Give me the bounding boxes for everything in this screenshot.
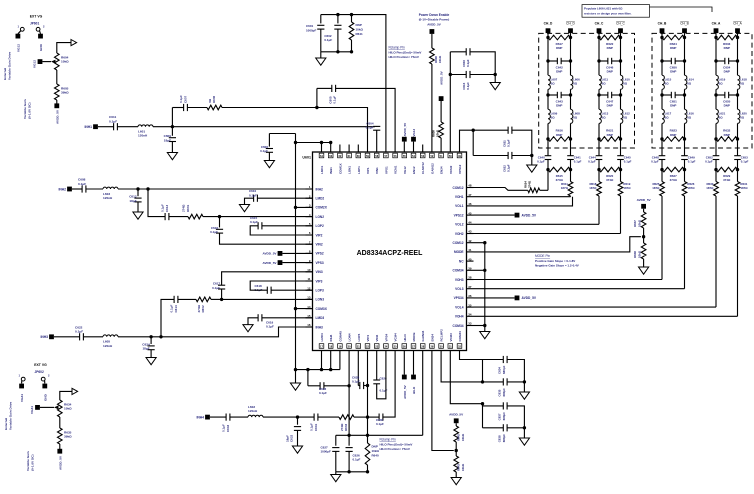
- node clamp bottom mid2: [366, 470, 369, 473]
- wire pair B bottom lead: [483, 427, 504, 429]
- pad HILO pin26: [411, 358, 416, 394]
- node C623-pin20 junction: [347, 384, 350, 387]
- wire pair1 to ground: [494, 75, 496, 83]
- wire ch A to inductors 2: [716, 95, 738, 109]
- pin 23 stub (bottom, VIN4): [374, 334, 379, 358]
- svg-text:CLMP12: CLMP12: [421, 162, 425, 174]
- svg-text:0.1μF: 0.1μF: [688, 160, 696, 164]
- svg-text:Rclamp Pin: Rclamp Pin: [389, 46, 406, 50]
- svg-text:LMD3: LMD3: [316, 316, 325, 320]
- svg-text:48: 48: [468, 184, 472, 188]
- svg-text:10kΩ: 10kΩ: [356, 28, 364, 32]
- wire LON3 node to pin 13: [222, 298, 313, 300]
- svg-text:680pF: 680pF: [502, 365, 506, 374]
- pin 43 stub (right, VOH2): [455, 230, 474, 236]
- pin 39 stub (right, COM34): [453, 267, 474, 273]
- wire ch C upper segment: [599, 38, 621, 62]
- resistor R616 DNP (ch D): [546, 129, 572, 142]
- node chain2 junction 1: [136, 187, 139, 190]
- svg-text:40: 40: [468, 257, 472, 261]
- wire pair2 top right: [512, 130, 532, 155]
- wire node A to pin 59 column: [317, 108, 368, 145]
- wire pot top to arrow 2: [60, 391, 72, 400]
- svg-text:JP602: JP602: [35, 370, 44, 374]
- svg-text:10kΩ: 10kΩ: [372, 449, 380, 453]
- wire R641 bottom: [351, 40, 353, 52]
- wire C606 tap to COM bus: [269, 133, 295, 135]
- wire C622 to L605: [83, 336, 103, 338]
- svg-text:10kΩ: 10kΩ: [436, 129, 440, 137]
- pin 9 stub (left, VPS3): [306, 259, 324, 265]
- svg-text:0.1μF: 0.1μF: [212, 286, 220, 290]
- wire ch C mid segment: [599, 89, 621, 95]
- node pin42 COM12 junction: [474, 241, 487, 244]
- resistor R603 274 ohm: [339, 415, 354, 431]
- ground right COM bus: [480, 332, 490, 339]
- resistor R627 374 ohm (ch B): [660, 167, 686, 182]
- capacitor C602 0.1uF: [324, 25, 341, 42]
- capacitor C640 0.1uF (ch D left out): [537, 155, 551, 169]
- node pin39 COM34 junction: [474, 269, 487, 272]
- wire pad to R637: [643, 209, 645, 212]
- svg-text:0Ω: 0Ω: [740, 116, 745, 120]
- pad AVDD_5V (R605 bottom): [54, 103, 59, 124]
- wire C601 drop: [320, 15, 322, 24]
- wire ch D mid segment: [548, 89, 571, 95]
- wire chain2 to pin 1 INH2: [148, 188, 313, 190]
- pin 11 stub (left, VIP3): [306, 277, 323, 283]
- svg-text:DNP: DNP: [556, 70, 562, 74]
- pin 46 stub (right, VOL1): [455, 202, 473, 208]
- wire R637 to node: [643, 228, 645, 237]
- wire COM bus vertical: [295, 134, 297, 370]
- wire ch A exit box: [716, 139, 738, 156]
- wire LON4 node to clamp net: [367, 417, 369, 435]
- capacitor C613 0.1uF series: [161, 204, 169, 220]
- wire INH3 pad to C622: [54, 336, 80, 338]
- svg-text:CH_A: CH_A: [733, 22, 742, 26]
- wire C627 to bottom rail: [335, 451, 337, 471]
- capacitor C605 0.1uF: [328, 85, 336, 104]
- pin 34 stub (right, VOH4): [455, 313, 474, 319]
- svg-text:Positive Gain Slope = 0-1.8V: Positive Gain Slope = 0-1.8V: [535, 259, 575, 263]
- svg-text:LMD4: LMD4: [320, 333, 324, 341]
- wire L602 to junction: [263, 416, 298, 418]
- svg-text:VG34: VG34: [30, 406, 34, 414]
- pin 3 stub (left, COM2X): [306, 204, 328, 210]
- wire ch D upper segment: [548, 38, 571, 62]
- pad VG12 (JP601 pin1): [16, 34, 21, 52]
- inductor L608 0 ohm: [571, 109, 581, 123]
- wire chain3 to pin 16 INH3: [161, 327, 313, 337]
- wire R601 to LON2 node: [203, 216, 220, 218]
- capacitor C609 18pF shunt: [164, 127, 176, 143]
- inductor L610 0 ohm: [621, 75, 631, 89]
- wire INH2 pad to C608: [72, 188, 82, 190]
- svg-text:MODE: MODE: [454, 250, 464, 254]
- inductor L602 120nH: [248, 405, 263, 417]
- ground C606: [264, 161, 274, 168]
- svg-text:LMD1: LMD1: [320, 166, 324, 174]
- inductor L601 120nH: [138, 125, 153, 138]
- svg-text:JP601: JP601: [30, 21, 39, 25]
- svg-text:DNP: DNP: [607, 46, 613, 50]
- pin 33 stub (right, COM34): [453, 322, 474, 328]
- svg-text:LON3: LON3: [316, 298, 325, 302]
- capacitor C603 0.1uF: [462, 48, 470, 67]
- resistor R643 10k: [454, 451, 465, 473]
- svg-text:EXT VG: EXT VG: [34, 363, 47, 367]
- svg-text:0Ω: 0Ω: [602, 82, 607, 86]
- svg-text:NC: NC: [459, 259, 464, 263]
- svg-text:VPS1: VPS1: [384, 166, 388, 174]
- wire pair A bottom lead: [483, 381, 504, 383]
- wire bus to ground: [295, 370, 297, 383]
- svg-text:35: 35: [468, 303, 472, 307]
- wire ch C lower segment: [599, 123, 621, 139]
- wire VOH1 to filter D right: [474, 196, 571, 198]
- svg-text:VIN3: VIN3: [316, 270, 323, 274]
- svg-text:HILO Position= 75mV: HILO Position= 75mV: [380, 447, 410, 451]
- capacitor C630 0.1uF: [376, 414, 384, 427]
- svg-text:0Ω: 0Ω: [719, 116, 724, 120]
- svg-text:18pF: 18pF: [129, 199, 136, 203]
- capacitor C638 680pF: [498, 424, 507, 442]
- svg-text:AVDD_5V: AVDD_5V: [449, 412, 464, 416]
- pin 48 stub (right, COM12): [453, 184, 474, 190]
- pin 8 stub (left, VPS2): [306, 250, 324, 256]
- pin 4 stub (left, LON2): [306, 213, 325, 219]
- svg-text:AVDD_5V: AVDD_5V: [522, 213, 537, 217]
- node COM3X junction: [294, 307, 297, 310]
- pin 17 stub (bottom, LMD4): [319, 333, 324, 358]
- wire pin 22 to LON4 node: [367, 358, 369, 417]
- pad VG wiper input: [33, 59, 43, 68]
- svg-text:Variable Gain Drive: Variable Gain Drive: [9, 402, 13, 430]
- resistor R631 187 ohm (ch A right): [735, 170, 748, 317]
- wire LMD2 gnd to C610: [245, 198, 254, 204]
- pin 32 stub (bottom, COM34): [457, 331, 462, 358]
- wire junction to C631: [298, 416, 315, 418]
- capacitor C619 0.1uF: [258, 314, 274, 329]
- svg-text:DNP: DNP: [724, 46, 730, 50]
- svg-text:0.1μF: 0.1μF: [466, 59, 470, 67]
- wire C633 to L602: [230, 416, 248, 418]
- resistor R632 DNP (ch A): [714, 129, 739, 142]
- svg-text:LON1: LON1: [348, 166, 352, 174]
- node pair A left mid: [481, 380, 484, 383]
- wire ch C exit box: [599, 139, 621, 156]
- svg-text:DNP: DNP: [356, 23, 362, 27]
- wire L605 to junctions: [118, 336, 161, 338]
- IC reference designator U601: [302, 156, 311, 160]
- wire to C607: [172, 107, 183, 109]
- svg-text:0.1μF: 0.1μF: [507, 139, 511, 147]
- capacitor C634 680pF: [498, 356, 507, 374]
- svg-text:0.1μF: 0.1μF: [75, 330, 83, 334]
- wire R641 drop: [351, 15, 353, 22]
- note populate filter: [582, 5, 712, 18]
- wire pair1 bottom lead: [450, 74, 466, 76]
- wire ch B exit box: [662, 139, 685, 156]
- svg-text:VOH3: VOH3: [455, 278, 464, 282]
- resistor R602 274 ohm: [196, 297, 211, 312]
- note MODE pin: [535, 254, 579, 267]
- svg-text:INH3: INH3: [316, 325, 323, 329]
- pin 35 stub (right, VOL4): [455, 303, 473, 309]
- ground chain3 shunt: [146, 358, 156, 365]
- svg-text:VPS2: VPS2: [316, 252, 324, 256]
- pin 27 stub (bottom, MODE): [411, 333, 416, 359]
- svg-text:COM3X: COM3X: [316, 307, 328, 311]
- capacitor C624 18pF shunt: [142, 337, 154, 351]
- node chain3 junction 1: [149, 335, 152, 338]
- wire C601 bottom: [320, 29, 322, 52]
- node pair B right bottom: [523, 426, 526, 429]
- wire LON4 node to C630: [368, 416, 380, 418]
- svg-text:0Ω: 0Ω: [602, 116, 607, 120]
- svg-text:0.1μF: 0.1μF: [366, 126, 374, 130]
- wire pin49 to pair2: [460, 130, 474, 144]
- svg-text:INH4: INH4: [196, 415, 204, 419]
- svg-text:LOP1: LOP1: [357, 166, 361, 174]
- wire clamp bottom rail upper: [321, 51, 352, 53]
- pin 16 stub (left, INH3): [306, 323, 323, 329]
- svg-text:AD8334ACPZ-REEL: AD8334ACPZ-REEL: [357, 250, 423, 257]
- svg-text:VIN4: VIN4: [375, 334, 379, 341]
- note Rclamp pin bottom: [380, 438, 413, 451]
- svg-text:0Ω: 0Ω: [623, 82, 628, 86]
- capacitor C635 680pF: [498, 378, 507, 396]
- wire pair1 top right: [470, 52, 495, 75]
- svg-text:COM34: COM34: [453, 324, 464, 328]
- svg-text:HILO: HILO: [412, 386, 416, 394]
- svg-text:GAIN34: GAIN34: [421, 330, 425, 341]
- wire C630 up to pin 24: [383, 358, 395, 417]
- pin 64 stub (top, LMD1): [319, 145, 324, 175]
- wire ch A upper segment: [716, 38, 738, 62]
- svg-text:VG12: VG12: [33, 60, 37, 68]
- svg-text:resistors or design your own f: resistors or design your own filter.: [584, 11, 632, 15]
- svg-text:VIP1: VIP1: [366, 167, 370, 174]
- svg-text:VOL4: VOL4: [455, 305, 464, 309]
- ground pair A: [519, 392, 529, 399]
- capacitor C615 0.1uF LOP2: [250, 216, 262, 229]
- svg-text:120nH: 120nH: [103, 344, 113, 348]
- pin 30 stub (bottom, RCLMP2): [439, 329, 444, 358]
- capacitor C626 0.1uF: [346, 448, 361, 462]
- svg-text:44: 44: [468, 221, 472, 225]
- svg-text:0.1μF: 0.1μF: [353, 458, 361, 462]
- node C602 top: [336, 13, 339, 16]
- svg-text:MODE: MODE: [412, 333, 416, 342]
- capacitor C604 0.1uF series to pin 58: [366, 122, 381, 145]
- wire C607 to R606: [187, 107, 207, 109]
- wire R608 to pin 52: [431, 64, 433, 145]
- wire pad to R642: [455, 423, 457, 426]
- off-page arrow VG34 drive: [72, 388, 78, 394]
- inductor L607 0 ohm: [548, 75, 558, 89]
- svg-text:VCM1: VCM1: [394, 165, 398, 174]
- svg-text:0.1μF: 0.1μF: [250, 220, 258, 224]
- svg-text:AVDD_5V: AVDD_5V: [440, 71, 444, 85]
- pin 55 stub (top, VG12): [402, 145, 407, 175]
- note power down enable: [419, 13, 450, 26]
- wire R614 to filter D left: [540, 189, 548, 191]
- svg-text:VCM3: VCM3: [449, 333, 453, 342]
- svg-text:U601: U601: [302, 156, 311, 160]
- svg-text:10kΩ: 10kΩ: [637, 250, 641, 258]
- svg-text:DNP: DNP: [670, 70, 676, 74]
- svg-text:Negative Gain Slope = 1.2-0.4V: Negative Gain Slope = 1.2-0.4V: [535, 264, 579, 268]
- pin 22 stub (bottom, VIP4): [365, 335, 370, 358]
- capacitor C641 0.1uF (ch D right out): [567, 155, 581, 169]
- node pair1 left mid: [449, 73, 452, 76]
- svg-text:DNP: DNP: [607, 70, 613, 74]
- svg-text:0.1μF: 0.1μF: [333, 96, 337, 104]
- pin 19 stub (bottom, COM4X): [338, 331, 343, 358]
- svg-text:DNP: DNP: [607, 133, 613, 137]
- node CH_A output pads: [712, 22, 743, 38]
- svg-text:47: 47: [468, 193, 472, 197]
- wire pin32 to cap pair A top: [460, 358, 483, 360]
- svg-text:C614: C614: [174, 305, 178, 313]
- potentiometer R634 10k: [58, 400, 73, 417]
- wire ch B upper segment: [662, 38, 685, 62]
- wire pair B top lead: [483, 404, 504, 406]
- svg-text:DNP: DNP: [670, 104, 676, 108]
- svg-text:34: 34: [468, 313, 472, 317]
- wire MODE to VCM divider: [474, 237, 641, 252]
- inductor L621 0 ohm: [716, 109, 726, 123]
- pin 1 stub (left, INH2): [306, 185, 323, 191]
- wire VOH4 to filter A right: [474, 315, 738, 317]
- svg-text:DNP: DNP: [556, 133, 562, 137]
- wire C623 drop: [307, 370, 309, 386]
- node chain2 junction 2: [146, 187, 149, 190]
- node A (series branch): [315, 106, 318, 109]
- wire pair2 to ground: [531, 156, 533, 166]
- svg-text:DNP: DNP: [670, 133, 676, 137]
- resistor R619 187 ohm (ch C right): [618, 170, 631, 234]
- svg-text:VIN1: VIN1: [375, 167, 379, 174]
- resistor R640 10k DNP: [365, 443, 379, 465]
- svg-text:VPS3: VPS3: [316, 261, 324, 265]
- wire C615 to pin 5: [262, 225, 313, 227]
- capacitor C606 0.1uF to ground: [260, 134, 273, 154]
- svg-text:VG12: VG12: [412, 128, 416, 136]
- pad AVDD_5V VPS2: [262, 251, 312, 256]
- wire pot to R635: [59, 417, 61, 428]
- inductor L612 0 ohm: [621, 109, 631, 123]
- svg-text:C613: C613: [165, 204, 169, 212]
- wire pair A left vertical: [482, 360, 484, 382]
- wire C609 to ground: [171, 142, 173, 153]
- capacitor C628 0.1uF: [352, 375, 364, 389]
- wire chain1 to C604: [172, 126, 375, 128]
- svg-text:MODE Pin: MODE Pin: [535, 254, 550, 258]
- node R641 top: [350, 13, 353, 16]
- wire C616 to pin 7 VIN2: [220, 233, 313, 244]
- wire pair2 left vertical: [472, 130, 474, 155]
- pin 18 stub (bottom, INH4): [328, 334, 333, 358]
- ground LMD2: [239, 205, 249, 212]
- wire pair2 bottom lead: [473, 155, 508, 157]
- svg-text:DNP: DNP: [724, 70, 730, 74]
- svg-text:R603: R603: [344, 423, 348, 431]
- capacitor C655 DNP (ch A): [714, 92, 739, 108]
- svg-text:VIP3: VIP3: [316, 279, 323, 283]
- svg-text:1000pF: 1000pF: [306, 28, 317, 32]
- wire junction2 down to LON2 branch: [148, 189, 165, 217]
- svg-text:0.1μF: 0.1μF: [249, 193, 257, 197]
- wire R609 to pin 51: [440, 138, 442, 145]
- node LON4 feedback: [366, 415, 369, 418]
- wire pin21 drop: [357, 358, 359, 386]
- ground VCM divider: [639, 267, 649, 274]
- resistor R609 10k: [432, 122, 444, 138]
- wire pin 20 to clamp wire: [348, 358, 350, 435]
- node CH_B output pads: [658, 22, 689, 38]
- resistor R629 374 ohm (ch A): [714, 167, 739, 182]
- svg-text:VG12: VG12: [16, 44, 20, 52]
- node pair2 right bottom: [530, 154, 533, 157]
- ground pair1: [490, 83, 500, 90]
- node clamp bottom mid1: [347, 470, 350, 473]
- svg-text:COM12: COM12: [453, 186, 464, 190]
- svg-text:0.1μF: 0.1μF: [624, 160, 632, 164]
- capacitor C616 0.1uF: [210, 217, 223, 234]
- node VCM divider mid: [642, 235, 645, 238]
- capacitor C643 DNP (ch D): [546, 92, 572, 108]
- wire C612 to ground: [137, 202, 139, 212]
- resistor R608 10k: [430, 48, 443, 64]
- capacitor C653 0.1uF (ch A right out): [734, 155, 748, 169]
- node clamp bottom C602: [336, 50, 339, 53]
- svg-text:EN34: EN34: [430, 334, 434, 342]
- svg-text:43: 43: [468, 230, 472, 234]
- svg-text:187Ω: 187Ω: [561, 186, 569, 190]
- wire C618 to pin 11 VIP3: [250, 281, 312, 290]
- pad VG12 pin54: [411, 128, 416, 144]
- svg-text:VIP4: VIP4: [366, 335, 370, 342]
- svg-text:HILO Position= 75mV: HILO Position= 75mV: [389, 55, 419, 59]
- wire pair A top right: [507, 360, 524, 382]
- inductor L611 0 ohm: [599, 75, 608, 89]
- node pin63 connection: [329, 141, 332, 145]
- node C623 tap: [306, 368, 309, 371]
- capacitor C642 DNP (ch D): [546, 58, 572, 74]
- resistor R601 274 ohm: [182, 204, 203, 219]
- svg-text:0.1μF: 0.1μF: [109, 119, 117, 123]
- capacitor C611 0.1uF: [109, 115, 117, 130]
- ground pair B: [519, 438, 529, 445]
- svg-text:AVDD_5V: AVDD_5V: [427, 22, 441, 26]
- svg-text:INH4: INH4: [329, 334, 333, 341]
- svg-text:LON4: LON4: [348, 333, 352, 341]
- off-page arrow VG drive: [71, 40, 77, 46]
- svg-text:120nH: 120nH: [103, 196, 113, 200]
- node AVDD_5V divider bottom: [449, 412, 464, 423]
- wire clamp to ground: [335, 472, 337, 475]
- capacitor C612 18pF shunt: [129, 189, 141, 203]
- inductor L606 0 ohm: [571, 75, 581, 89]
- svg-text:CH_D: CH_D: [566, 22, 575, 26]
- svg-text:EN34: EN34: [440, 166, 444, 174]
- wire VOH3 to filter B left: [474, 279, 663, 281]
- svg-text:INH1: INH1: [329, 167, 333, 174]
- svg-text:680pF: 680pF: [502, 434, 506, 443]
